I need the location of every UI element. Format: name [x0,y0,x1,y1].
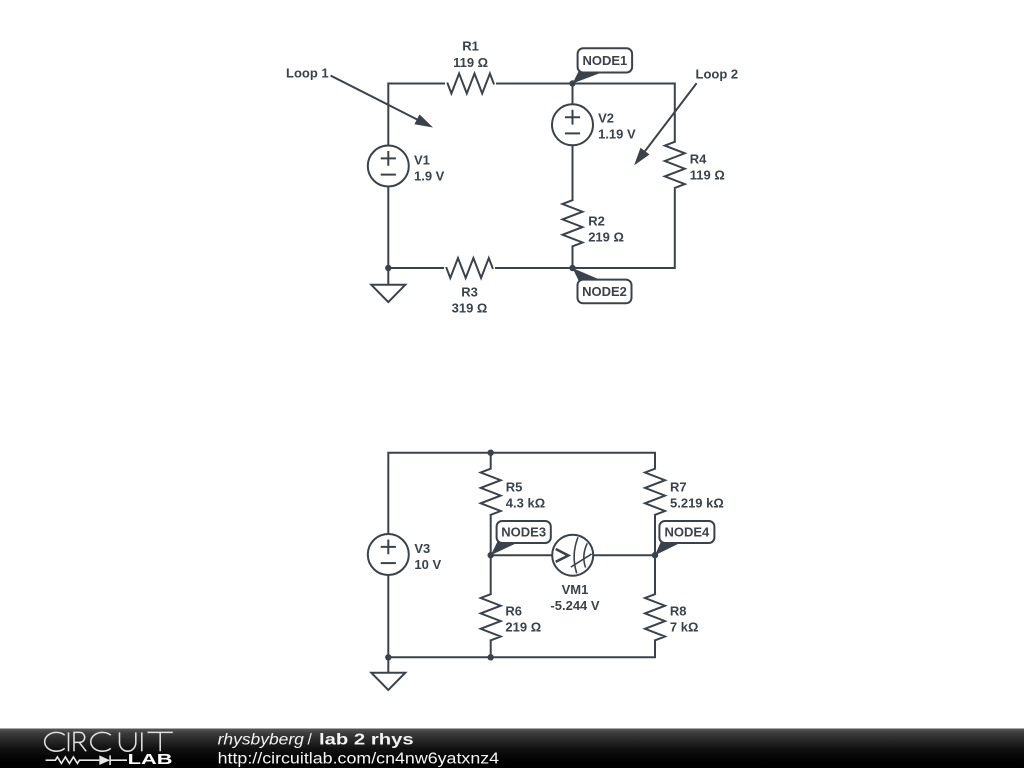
svg-text:NODE3: NODE3 [501,525,546,540]
svg-text:LAB: LAB [128,752,173,768]
svg-text:R7: R7 [670,480,687,495]
svg-text:10 V: 10 V [414,557,441,572]
svg-text:R3: R3 [461,285,478,300]
svg-text:R5: R5 [506,480,523,495]
svg-text:R2: R2 [588,213,605,228]
svg-text:R1: R1 [462,39,479,54]
svg-text:1.19 V: 1.19 V [598,126,636,141]
svg-text:http://circuitlab.com/cn4nw6ya: http://circuitlab.com/cn4nw6yatxnz4 [218,750,500,767]
svg-text:1.9 V: 1.9 V [414,168,445,183]
svg-text:R6: R6 [505,604,522,619]
svg-text:VM1: VM1 [562,582,589,597]
svg-text:lab 2 rhys: lab 2 rhys [319,732,414,749]
svg-text:V3: V3 [414,541,430,556]
svg-text:V2: V2 [598,110,614,125]
svg-text:219 Ω: 219 Ω [588,230,624,245]
svg-text:NODE1: NODE1 [583,53,628,68]
svg-text:119 Ω: 119 Ω [690,168,725,183]
svg-text:319 Ω: 319 Ω [452,301,488,316]
svg-text:R4: R4 [690,152,707,167]
svg-text:5.219 kΩ: 5.219 kΩ [670,496,724,511]
svg-text:NODE2: NODE2 [582,284,627,299]
svg-text:119 Ω: 119 Ω [453,55,488,70]
svg-text:R8: R8 [670,604,687,619]
svg-text:Loop 1: Loop 1 [286,66,329,81]
svg-text:-5.244 V: -5.244 V [550,598,599,613]
svg-text:219 Ω: 219 Ω [505,620,541,635]
svg-text:7 kΩ: 7 kΩ [670,620,699,635]
svg-text:4.3 kΩ: 4.3 kΩ [506,496,545,511]
svg-text:Loop 2: Loop 2 [696,66,739,81]
svg-text:V1: V1 [414,152,430,167]
svg-text:rhysbyberg: rhysbyberg [218,732,305,749]
svg-text:NODE4: NODE4 [665,525,711,540]
svg-text:/: / [308,732,313,749]
